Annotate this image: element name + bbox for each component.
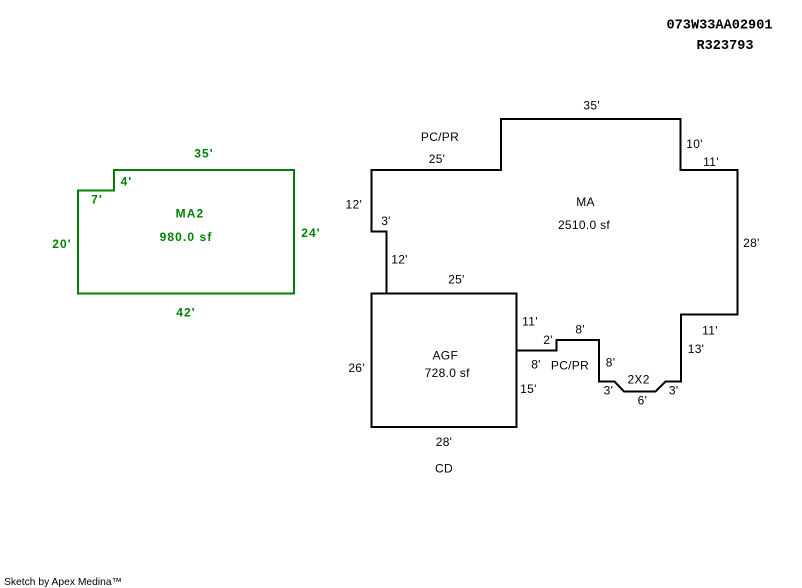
svg-text:35': 35' — [194, 146, 214, 160]
svg-text:13': 13' — [688, 342, 705, 356]
svg-text:15': 15' — [520, 382, 537, 396]
svg-text:35': 35' — [583, 99, 600, 113]
svg-text:25': 25' — [448, 273, 465, 287]
svg-text:2X2: 2X2 — [627, 372, 649, 386]
svg-text:Sketch by Apex Medina™: Sketch by Apex Medina™ — [4, 577, 122, 588]
svg-text:12': 12' — [391, 253, 408, 267]
svg-text:26': 26' — [348, 361, 365, 375]
svg-text:7': 7' — [91, 193, 103, 207]
svg-text:42': 42' — [176, 305, 196, 319]
svg-text:25': 25' — [429, 152, 446, 166]
svg-text:3': 3' — [669, 384, 679, 398]
svg-text:AGF: AGF — [433, 349, 459, 363]
svg-text:24': 24' — [301, 226, 321, 240]
MA outline (black polygon) — [372, 119, 738, 392]
svg-text:CD: CD — [435, 462, 453, 476]
svg-text:20': 20' — [52, 237, 72, 251]
svg-text:28': 28' — [743, 236, 760, 250]
svg-text:980.0 sf: 980.0 sf — [160, 230, 213, 244]
svg-text:3': 3' — [381, 214, 391, 228]
svg-text:6': 6' — [638, 394, 648, 408]
svg-text:28': 28' — [436, 435, 453, 449]
svg-text:PC/PR: PC/PR — [551, 358, 589, 372]
svg-text:R323793: R323793 — [696, 39, 753, 54]
svg-text:8': 8' — [606, 355, 616, 369]
svg-text:8': 8' — [531, 358, 541, 372]
svg-text:PC/PR: PC/PR — [421, 130, 459, 144]
svg-text:728.0 sf: 728.0 sf — [425, 366, 470, 380]
AGF outline (black rectangle) — [372, 294, 517, 428]
svg-text:2': 2' — [543, 333, 553, 347]
svg-text:MA2: MA2 — [176, 206, 205, 220]
svg-text:073W33AA02901: 073W33AA02901 — [666, 18, 772, 33]
svg-text:3': 3' — [604, 384, 614, 398]
svg-text:2510.0 sf: 2510.0 sf — [558, 218, 610, 232]
svg-text:MA: MA — [576, 195, 595, 209]
svg-text:10': 10' — [686, 137, 703, 151]
svg-text:11': 11' — [702, 323, 718, 337]
svg-text:11': 11' — [703, 155, 719, 169]
MA2 outline (green polygon) — [78, 170, 294, 294]
svg-text:4': 4' — [121, 174, 133, 188]
svg-text:8': 8' — [575, 323, 585, 337]
svg-text:11': 11' — [522, 315, 538, 329]
svg-text:12': 12' — [346, 197, 363, 211]
